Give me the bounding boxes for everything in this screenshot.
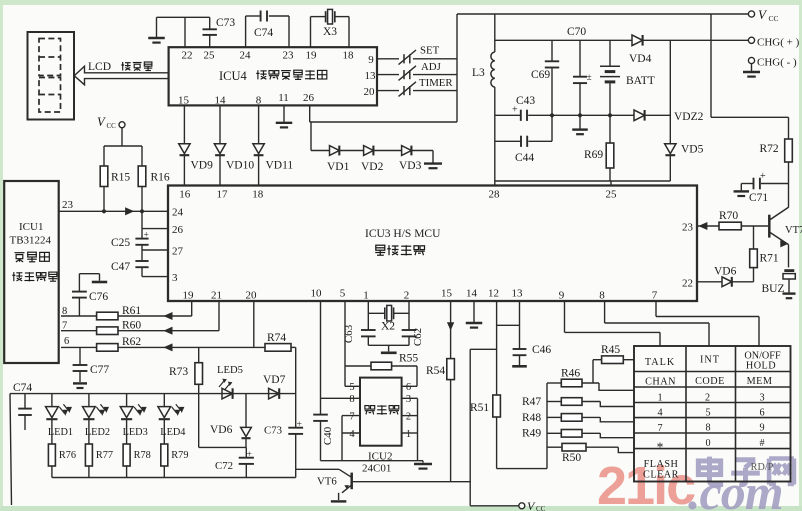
svg-text:C74: C74 [254, 27, 273, 39]
svg-text:17: 17 [217, 189, 229, 201]
svg-text:7: 7 [652, 290, 658, 302]
svg-text:ICU4: ICU4 [219, 69, 248, 83]
svg-text:SET: SET [420, 45, 440, 57]
svg-text:LED1: LED1 [48, 427, 73, 438]
LED LED1 [46, 394, 74, 444]
svg-text:24C01: 24C01 [362, 462, 391, 474]
terminal CHG(-) [748, 57, 797, 69]
svg-text:+: + [247, 450, 252, 460]
IC ICU4 LCD display module box [169, 47, 377, 105]
diode VD6 on ICU3 pin22 [697, 266, 754, 287]
svg-text:L3: L3 [472, 67, 485, 79]
diode VD4 [629, 35, 652, 65]
label ICU1 pin 8 [62, 306, 67, 317]
svg-text:16: 16 [179, 189, 191, 201]
svg-text:14: 14 [466, 288, 478, 300]
LED LED2 [83, 394, 111, 444]
resistor R49 [522, 428, 634, 440]
svg-text:R15: R15 [111, 172, 130, 184]
capacitor C76 to ground [72, 274, 108, 316]
svg-text:R55: R55 [399, 353, 418, 365]
svg-text:R69: R69 [584, 149, 603, 161]
wire power bottom rail to ICU3 pins 28 25 [495, 181, 671, 186]
svg-text:8: 8 [256, 95, 262, 107]
ground on mid rail below C70 [572, 115, 588, 134]
wire ICU2 pins7-4 [342, 416, 360, 461]
svg-text:HOLD: HOLD [746, 360, 776, 371]
wire branch to VD1 row [311, 122, 330, 151]
svg-text:3: 3 [406, 394, 411, 405]
svg-text:R74: R74 [267, 332, 286, 344]
wire LED top rail [10, 393, 296, 395]
terminal Vcc mid-left [97, 115, 125, 146]
svg-text:CHG( + ): CHG( + ) [757, 37, 800, 49]
resistor R51 on pin12 line [470, 301, 500, 469]
ground at ICU4 top-left [148, 17, 165, 42]
LCD bus arrow from ICU4 to LCD [74, 66, 168, 85]
diode VD11 [253, 105, 294, 185]
resistor R74 in series [265, 332, 296, 351]
keypad digit rows [657, 392, 765, 454]
wire ICU3 pin7 to keypad col3 [656, 301, 759, 346]
svg-text:CC: CC [536, 505, 546, 511]
buzzer BUZ [762, 271, 796, 295]
svg-text:VT6: VT6 [317, 476, 337, 488]
svg-text:C46: C46 [532, 344, 551, 356]
wire LED bottom rail [52, 477, 296, 479]
wire ladder common bus [497, 383, 547, 469]
svg-text:1: 1 [406, 429, 411, 440]
keypad row1 labels [645, 350, 781, 371]
svg-text:15: 15 [441, 288, 453, 300]
wire ICU3 pin27 tap [142, 250, 168, 261]
diode VD1 [327, 146, 364, 173]
svg-text:VD1: VD1 [327, 161, 350, 173]
svg-text:R77: R77 [96, 450, 113, 461]
svg-text:R45: R45 [601, 344, 620, 356]
wire ICU3 pin20 drop [253, 301, 255, 347]
svg-text:ICU2: ICU2 [368, 451, 392, 463]
capacitor C43 polarized [512, 95, 535, 121]
svg-text:24: 24 [172, 207, 184, 219]
capacitor C25 polarized [111, 230, 149, 250]
svg-text:VD3: VD3 [399, 160, 422, 172]
ground ICU3 pin14 [466, 301, 483, 328]
svg-text:10: 10 [311, 288, 323, 300]
svg-text:LED2: LED2 [85, 427, 110, 438]
wire pins12-13 tie [497, 324, 520, 326]
svg-text:26: 26 [303, 92, 315, 104]
ICU3 bottom pin labels [183, 288, 658, 302]
LED LED4 [158, 394, 186, 444]
resistor R45 [593, 344, 634, 364]
capacitor C73 on ICU4 pin 25 [203, 17, 236, 47]
svg-text:9: 9 [368, 54, 374, 66]
svg-text:8: 8 [599, 290, 605, 302]
svg-text:2: 2 [404, 290, 410, 302]
ICU3 top pin labels [179, 189, 617, 201]
capacitor C63 [343, 324, 376, 345]
svg-text:VD11: VD11 [266, 160, 294, 172]
svg-text:R70: R70 [719, 210, 738, 222]
LCD digit 1 dashed segments [39, 39, 61, 76]
svg-text:LED3: LED3 [123, 427, 148, 438]
diode VD6 vertical [210, 394, 251, 448]
watermark 21ic [597, 456, 695, 511]
watermark char zi [731, 460, 760, 485]
ICU4 top pin labels [182, 50, 355, 62]
wire Vcc branch to R72 [711, 14, 789, 117]
junction node R15 [102, 209, 106, 213]
svg-text:23: 23 [283, 50, 295, 62]
ICU4 bottom pin labels [178, 92, 315, 107]
junction node R16 [140, 209, 144, 213]
svg-text:MEM: MEM [747, 376, 773, 387]
wire ICU3 pin5 drop [344, 301, 346, 386]
svg-text:BATT: BATT [626, 75, 655, 87]
junction node C43-C69 [550, 113, 554, 117]
svg-text:19: 19 [306, 50, 318, 62]
svg-text:R62: R62 [122, 336, 141, 348]
svg-text:9: 9 [759, 423, 764, 434]
resistor R76 [48, 444, 76, 478]
wire ICU4 pin26 to switch bus [310, 105, 457, 122]
svg-text:3: 3 [759, 392, 764, 403]
svg-text:C76: C76 [89, 291, 108, 303]
svg-text:6: 6 [759, 407, 764, 418]
resistor R62 on pin6 line [61, 336, 265, 351]
watermark .com [688, 464, 783, 511]
wire R15/R16 top rail [104, 145, 142, 147]
capacitor C73 lower polarized [264, 347, 303, 469]
label ICU1 pin 6 [64, 336, 69, 347]
crystal X2 circuit [368, 301, 409, 333]
capacitor C74 loop pins 24-23 [246, 11, 289, 48]
svg-text:R76: R76 [59, 450, 76, 461]
svg-text:VD5: VD5 [681, 144, 704, 156]
wire mid rail [495, 114, 634, 116]
svg-text:C43: C43 [516, 95, 535, 107]
ICU3 left pin labels [172, 207, 184, 285]
svg-text:R54: R54 [426, 365, 445, 377]
diode VDZ2 zener [634, 110, 704, 123]
svg-text:VD4: VD4 [629, 53, 652, 65]
svg-text:*: * [657, 440, 664, 455]
svg-text:ICU3 H/S MCU: ICU3 H/S MCU [365, 228, 441, 240]
resistor R71 [750, 226, 779, 282]
svg-text:28: 28 [489, 189, 501, 201]
diode VD10 [214, 105, 254, 185]
svg-text:21: 21 [211, 290, 222, 302]
wire CHG+ rail [495, 39, 749, 41]
ICU3 title [365, 228, 441, 256]
svg-text:BUZ: BUZ [762, 283, 785, 295]
LED LED5 [217, 365, 243, 399]
ICU4 title [219, 69, 327, 83]
svg-text:13: 13 [512, 288, 524, 300]
wire ICU3 pin8 to keypad col2 [605, 301, 709, 346]
svg-text:25: 25 [606, 189, 618, 201]
capacitor C77 to ground [73, 347, 110, 388]
wire ICU3 pin23 to R70 [697, 223, 719, 230]
ICU1 title [10, 221, 58, 281]
capacitor C47 [111, 261, 149, 277]
svg-text:VD6: VD6 [210, 424, 233, 436]
svg-text:R48: R48 [522, 412, 541, 424]
svg-text:VD2: VD2 [361, 161, 384, 173]
diode VD2 [361, 146, 402, 173]
resistor R55 [345, 353, 418, 370]
svg-text:INT: INT [700, 355, 720, 366]
ICU2 labels [362, 451, 392, 475]
svg-text:C73: C73 [264, 425, 282, 437]
wire ICU4 pin22/25 top rail [157, 17, 210, 47]
wire ICU3 pin10 drop [320, 301, 322, 398]
battery BATT [600, 40, 655, 115]
ground ICU2 bottom [414, 461, 432, 469]
diode VD5 zener [665, 40, 704, 181]
svg-text:VD6: VD6 [714, 266, 737, 278]
svg-text:14: 14 [215, 95, 227, 107]
capacitor C62 [402, 328, 424, 346]
svg-text:C44: C44 [515, 152, 534, 164]
wire ICU2 pin5 [345, 385, 360, 387]
svg-text:12: 12 [488, 288, 499, 300]
wire ICU2 pin6 to R55 [402, 366, 417, 386]
svg-text:R47: R47 [522, 396, 541, 408]
keypad RD/P cell [751, 462, 774, 473]
IC ICU2 24C01 memory box [360, 378, 402, 446]
svg-text:26: 26 [172, 224, 184, 236]
crystal X3 loop pins 19-18 [311, 9, 350, 47]
svg-text:18: 18 [252, 189, 264, 201]
svg-text:C77: C77 [90, 364, 109, 376]
svg-text:X3: X3 [323, 26, 337, 38]
svg-text:CC: CC [107, 122, 117, 130]
svg-text:R73: R73 [169, 366, 188, 378]
svg-text:6: 6 [406, 382, 411, 393]
wire X2 ground rail [368, 345, 409, 353]
wire branch to bottom Vcc [470, 349, 496, 506]
svg-text:LED4: LED4 [160, 427, 185, 438]
ground below CHG- [743, 64, 760, 77]
resistor R69 [584, 115, 614, 181]
svg-text:R60: R60 [122, 320, 141, 332]
capacitor C71 polarized [741, 171, 788, 204]
svg-text:5: 5 [340, 288, 346, 300]
svg-text:CHG( - ): CHG( - ) [757, 57, 797, 69]
svg-text:2: 2 [705, 392, 710, 403]
wire ICU3 pin9 to keypad col1 [565, 301, 661, 346]
inductor L3 [472, 14, 495, 181]
resistor R15 [100, 146, 130, 211]
resistor R60 on pin7 line [61, 320, 219, 335]
wire left edge drop [10, 394, 12, 505]
svg-text:VD10: VD10 [226, 160, 254, 172]
svg-text:TALK: TALK [645, 357, 675, 368]
svg-text:6: 6 [64, 336, 69, 347]
svg-text:ICU1: ICU1 [19, 221, 43, 233]
svg-text:CLEAR: CLEAR [643, 470, 679, 481]
svg-text:+: + [297, 420, 302, 430]
keypad table grid [634, 346, 791, 482]
svg-text:CC: CC [769, 14, 779, 23]
svg-text:C40: C40 [322, 426, 334, 445]
svg-text:TB31224: TB31224 [10, 235, 52, 247]
svg-text:23: 23 [682, 222, 694, 234]
svg-text:R51: R51 [470, 402, 489, 414]
svg-text:20: 20 [364, 86, 376, 98]
wire C73 bottom to VT6 base [296, 469, 339, 477]
svg-text:24: 24 [240, 50, 252, 62]
resistor R79 [161, 444, 189, 478]
svg-text:C72: C72 [215, 460, 233, 472]
resistor R47 [522, 396, 634, 408]
resistor R78 [123, 444, 151, 478]
svg-text:8: 8 [349, 394, 354, 405]
diode VD9 [179, 105, 213, 185]
resistor R50 [547, 443, 634, 464]
ICU2 pin labels left [349, 382, 355, 440]
svg-text:1: 1 [363, 290, 369, 302]
resistor R73 [169, 347, 203, 447]
watermark char wang [769, 459, 794, 485]
svg-text:ADJ: ADJ [421, 61, 441, 73]
ICU2 title glyphs [365, 405, 399, 415]
svg-text:R78: R78 [134, 450, 151, 461]
svg-text:VT7: VT7 [785, 225, 802, 236]
svg-text:1: 1 [657, 393, 662, 404]
junction node C70 mid rail [578, 113, 582, 117]
svg-text:+: + [760, 171, 766, 182]
switch SET on ICU4 pin 9 [377, 45, 457, 65]
svg-text:3: 3 [172, 272, 178, 284]
resistor R70 [719, 210, 768, 230]
svg-text:4: 4 [349, 429, 355, 440]
svg-text:11: 11 [278, 92, 289, 104]
svg-text:+: + [144, 230, 149, 240]
resistor R48 [522, 412, 634, 424]
svg-text:X2: X2 [381, 321, 395, 333]
keypad flash clear cell [643, 459, 679, 481]
svg-text:7: 7 [657, 423, 662, 434]
ICU2 pin labels right [406, 382, 411, 440]
svg-text:18: 18 [343, 50, 355, 62]
switch TIMER on ICU4 pin 20 [377, 77, 457, 96]
transistor VT7 [769, 207, 802, 246]
svg-text:R46: R46 [561, 367, 580, 379]
transistor VT6 [317, 469, 471, 501]
svg-text:VDZ2: VDZ2 [674, 111, 704, 123]
svg-text:22: 22 [682, 278, 693, 290]
svg-text:5: 5 [349, 382, 354, 393]
ICU3 right pin labels [682, 222, 694, 290]
svg-text:R50: R50 [562, 452, 581, 464]
IC ICU3 H/S MCU microprocessor box [168, 186, 697, 302]
svg-text:7: 7 [62, 321, 67, 332]
resistor R72 [760, 117, 793, 207]
svg-text:R79: R79 [171, 450, 188, 461]
wire ICU1 pin23 to ICU3 pin24 [59, 199, 168, 215]
svg-text:8: 8 [705, 423, 710, 434]
svg-text:20: 20 [246, 290, 258, 302]
wire ICU3 pin26 tap [142, 211, 168, 238]
svg-text:13: 13 [365, 70, 377, 82]
capacitor C46 on pin13 [512, 301, 551, 366]
svg-text:C62: C62 [412, 328, 424, 346]
capacitor C69 [531, 40, 559, 115]
diode VD3 [399, 146, 433, 172]
resistor R61 on pin8 line [61, 305, 192, 320]
capacitor C70 [567, 26, 592, 115]
svg-text:19: 19 [183, 290, 195, 302]
svg-text:4: 4 [657, 408, 662, 419]
svg-text:C70: C70 [567, 26, 586, 38]
ground after VD3 [424, 151, 442, 169]
switch ADJ on ICU4 pin 13 [377, 61, 457, 80]
svg-text:C73: C73 [216, 17, 235, 29]
resistor R54 [426, 301, 454, 482]
resistor R16 [138, 146, 170, 211]
wire R73 bottom to VD6 [199, 446, 246, 448]
svg-text:C74: C74 [13, 382, 32, 394]
svg-text:R16: R16 [151, 172, 170, 184]
svg-text:LED5: LED5 [217, 365, 243, 376]
svg-text:2: 2 [406, 412, 411, 423]
wire R45 to R46 row [592, 360, 594, 383]
wire ICU2 pin8 [321, 397, 361, 399]
svg-text:R72: R72 [760, 143, 779, 155]
junction node BATT mid rail [608, 113, 612, 117]
svg-text:R71: R71 [760, 253, 779, 265]
svg-text:C47: C47 [111, 261, 130, 273]
svg-text:R49: R49 [522, 428, 541, 440]
wire to ICU3 pin19 [191, 301, 193, 316]
svg-text:LCD: LCD [88, 61, 111, 73]
terminal CHG(+) [748, 37, 799, 49]
capacitor C44 branch [495, 115, 552, 164]
svg-text:23: 23 [62, 199, 74, 211]
resistor R46 [547, 367, 634, 390]
ICU4 right pin labels [364, 54, 377, 98]
svg-text:CHAN: CHAN [645, 377, 676, 388]
svg-text:27: 27 [172, 246, 184, 258]
svg-text:9: 9 [559, 290, 565, 302]
ground ICU4 pin 11 [276, 105, 293, 127]
svg-text:C69: C69 [531, 69, 550, 81]
label LCD 显示屏 [88, 61, 152, 73]
wire Vcc top rail [457, 13, 748, 15]
svg-text:0: 0 [705, 438, 710, 449]
svg-text:7: 7 [349, 412, 354, 423]
svg-text:#: # [759, 438, 764, 449]
LCD display box [28, 32, 75, 120]
svg-text:22: 22 [182, 50, 193, 62]
svg-text:5: 5 [705, 407, 710, 418]
ground left of C71 [734, 184, 750, 197]
wire ICU2 bottom rail [321, 460, 424, 462]
terminal Vcc top [748, 7, 778, 23]
resistor R77 [85, 444, 113, 478]
wire to ICU3 pin21 [218, 301, 220, 331]
svg-text:C25: C25 [111, 237, 130, 249]
wire ICU2 pins3-2-1 [402, 398, 418, 460]
terminal Vcc bottom [519, 499, 546, 511]
capacitor C40 [313, 398, 334, 460]
svg-text:TIMER: TIMER [419, 77, 453, 89]
svg-text:R61: R61 [122, 305, 141, 317]
wire VT7 emitter to BUZ [788, 245, 790, 268]
